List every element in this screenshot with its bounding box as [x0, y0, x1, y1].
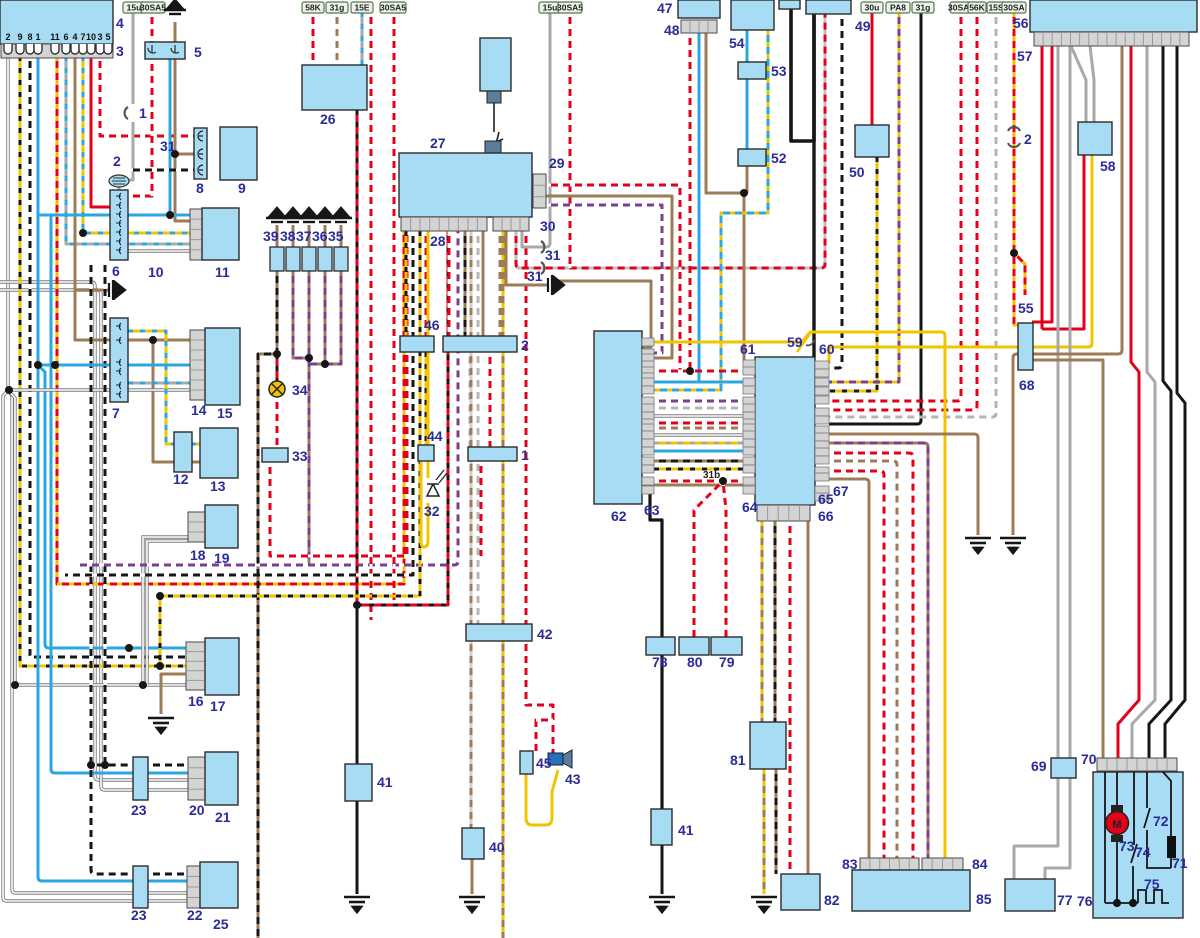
svg-text:1: 1 — [521, 447, 529, 463]
wire rw 30SA5b — [370, 12, 373, 620]
strip 66 — [757, 505, 810, 521]
wire blue 48 — [698, 33, 701, 382]
relay 58 — [1078, 122, 1112, 155]
junction d12 — [686, 367, 694, 375]
svg-text:26: 26 — [320, 111, 336, 127]
svg-text:30u: 30u — [865, 3, 880, 13]
svg-text:38: 38 — [280, 228, 296, 244]
wire row443 ylG — [642, 442, 744, 445]
wire yl 66 to 81 — [761, 521, 764, 722]
svg-text:31b: 31b — [703, 470, 720, 481]
wire 36 down — [309, 271, 325, 364]
wire red 57 fan — [1118, 46, 1139, 758]
svg-text:10: 10 — [148, 264, 164, 280]
svg-text:56: 56 — [1013, 15, 1029, 31]
wire gray-blue row383 — [128, 382, 190, 385]
wire brY long 45 — [502, 231, 505, 938]
wire brown gnd 37 — [308, 225, 311, 247]
resistor 41L — [345, 764, 372, 801]
relay 52 — [738, 149, 766, 166]
sensor 40 — [462, 828, 484, 859]
fuse label 15S — [987, 2, 1005, 13]
wire pin9 yellow-black — [20, 56, 186, 666]
svg-text:18: 18 — [190, 547, 206, 563]
ground 35col 325 — [314, 208, 336, 222]
wire pw row565 — [75, 231, 458, 565]
wire row461 brW — [829, 461, 897, 858]
wire rw 58K — [312, 12, 315, 65]
wire gray 69-77b — [1045, 778, 1070, 879]
wire black 62 to 78 — [650, 491, 662, 809]
wire brown 48 — [706, 33, 744, 364]
box5 hooks — [148, 45, 179, 53]
wire brown gnd 39 — [276, 225, 279, 247]
wire row434 brown — [829, 434, 978, 535]
svg-text:29: 29 — [549, 155, 565, 171]
wire white 685src — [8, 390, 186, 685]
svg-text:41: 41 — [377, 774, 393, 790]
svg-text:15u: 15u — [543, 3, 558, 13]
wire black 57 fan a — [1149, 46, 1171, 758]
wire gray 69-77a — [1014, 778, 1058, 879]
wire gray 58a — [1071, 46, 1086, 122]
wire rb from 26 — [356, 110, 359, 605]
fuse 23a — [133, 757, 148, 800]
wire rw box5 to 6 — [110, 59, 152, 196]
svg-text:52: 52 — [771, 150, 787, 166]
connector 6 — [110, 190, 128, 260]
svg-text:58: 58 — [1100, 158, 1116, 174]
unit 64 — [755, 357, 815, 505]
svg-text:14: 14 — [191, 402, 207, 418]
wire rw 33 down — [270, 231, 407, 556]
svg-text:42: 42 — [537, 626, 553, 642]
svg-text:72: 72 — [1153, 813, 1169, 829]
svg-text:82: 82 — [824, 892, 840, 908]
wire row401 pw — [642, 400, 744, 403]
svg-text:77: 77 — [1057, 892, 1073, 908]
svg-text:47: 47 — [657, 0, 673, 16]
wire brown 57 gnd — [1013, 46, 1122, 535]
svg-text:45: 45 — [536, 755, 552, 771]
svg-text:53: 53 — [771, 63, 787, 79]
svg-text:23: 23 — [131, 802, 147, 818]
ground right b — [1000, 538, 1026, 553]
wire brown branch12 — [153, 340, 175, 462]
svg-text:48: 48 — [664, 22, 680, 38]
svg-text:62: 62 — [611, 508, 627, 524]
control unit 11 — [202, 208, 239, 260]
svg-text:73: 73 — [1119, 838, 1135, 854]
wire rw from 30SA5 — [151, 12, 154, 42]
wire rw 30SA5 mid — [569, 12, 572, 268]
fuse 80 — [679, 637, 709, 655]
strip 14 — [190, 330, 205, 400]
svg-text:21: 21 — [215, 809, 231, 825]
svg-text:20: 20 — [189, 802, 205, 818]
svg-text:76: 76 — [1077, 893, 1093, 909]
unit top — [779, 0, 800, 9]
svg-text:17: 17 — [210, 698, 226, 714]
strip 18 — [188, 512, 205, 542]
svg-text:15E: 15E — [354, 3, 369, 13]
svg-text:3: 3 — [97, 32, 102, 42]
strip 61 pins — [743, 360, 755, 494]
box 46a — [400, 336, 434, 352]
svg-text:44: 44 — [427, 428, 443, 444]
wire pin1 blue — [38, 56, 133, 881]
wire black 78-41 — [661, 845, 664, 894]
relay 81 — [750, 722, 786, 769]
resistor 71 — [1163, 772, 1176, 868]
switch link — [487, 103, 503, 152]
wire bw 49 — [829, 14, 842, 368]
thermal switch 75 — [1114, 890, 1169, 906]
wire pin3 red-white — [100, 56, 194, 136]
junction d14 — [1010, 249, 1018, 257]
wire pw 29 row — [546, 205, 662, 353]
wire brown gnd 35 — [340, 225, 343, 247]
wire brown 68 fan — [1032, 360, 1103, 758]
svg-text:11: 11 — [215, 264, 230, 280]
wire rb row605 — [357, 231, 448, 605]
wire row382 blue — [642, 381, 744, 384]
wire k 66 to 81 — [774, 521, 777, 722]
svg-text:3: 3 — [116, 43, 124, 59]
wire yellow horn loop — [526, 770, 558, 825]
svg-text:68: 68 — [1019, 377, 1035, 393]
svg-text:5: 5 — [194, 44, 202, 60]
wire bw to 23a — [91, 260, 133, 765]
junction d10 — [353, 601, 361, 609]
bulb 34 — [269, 381, 285, 397]
svg-text:33: 33 — [292, 448, 308, 464]
wire brown 62top — [557, 281, 651, 347]
fuse label 30SA5 d — [948, 2, 974, 13]
wire rw 46b — [448, 231, 451, 336]
wire bw row575 — [65, 231, 413, 575]
wire 31b branch80 — [694, 481, 723, 637]
wire pin2 white — [6, 56, 9, 390]
wire gray 57 fan — [1132, 46, 1155, 758]
junction d16 — [321, 360, 329, 368]
motor 21 — [205, 752, 238, 805]
wire pin6 gray-blue — [66, 56, 190, 244]
svg-text:1: 1 — [35, 32, 40, 42]
wire row481 rw — [642, 480, 744, 483]
resistor 12 — [174, 432, 192, 472]
svg-text:41: 41 — [678, 822, 694, 838]
svg-text:2: 2 — [5, 32, 10, 42]
wire row453 rw — [829, 453, 913, 858]
wire pin11 red-yellow — [57, 56, 404, 584]
relay 50 — [855, 125, 889, 157]
wire brown box5 down — [175, 59, 190, 221]
wire gw 15S — [829, 12, 996, 417]
motor 73 — [1106, 772, 1129, 903]
svg-text:64: 64 — [742, 499, 758, 515]
connector box 8 — [194, 128, 207, 179]
junction d18 — [11, 681, 19, 689]
svg-text:85: 85 — [976, 891, 992, 907]
wire brown 12 to 13 — [191, 461, 202, 464]
wire rw 56K — [829, 12, 977, 410]
junction d20 — [101, 761, 109, 769]
wire brown gnd to box5 — [174, 22, 177, 42]
wire brown arrow31 — [506, 231, 548, 285]
wire rw 46a — [425, 231, 428, 336]
junction d21 — [156, 662, 164, 670]
svg-text:12: 12 — [173, 471, 189, 487]
svg-text:43: 43 — [565, 771, 581, 787]
wire row371 rw — [642, 370, 744, 373]
svg-text:74: 74 — [1135, 844, 1151, 860]
svg-text:67: 67 — [833, 483, 849, 499]
diode 32 — [427, 470, 447, 496]
wire py PA8 — [829, 12, 899, 382]
wire gray comp2 stub — [118, 186, 121, 192]
unit 62 — [594, 331, 642, 504]
wire bulb wire — [276, 354, 279, 381]
fuse label 31g a — [326, 2, 348, 13]
wire row479 brown — [829, 479, 869, 858]
wire red 57a — [1041, 46, 1044, 329]
svg-text:50: 50 — [849, 164, 865, 180]
wire brown 16 gnd — [161, 674, 186, 714]
wire brown gnd 38 — [292, 225, 295, 247]
svg-text:34: 34 — [292, 382, 308, 398]
wire brown gnd 36 — [324, 225, 327, 247]
wire rw to horn — [526, 231, 553, 752]
wire pin7 yellow-blue — [83, 56, 190, 233]
strip 57 — [1034, 32, 1189, 46]
strip 48 — [681, 20, 717, 33]
wire rg row268 — [516, 14, 825, 268]
wire kbr 46b — [464, 231, 467, 336]
pin numbers box 4 — [5, 32, 110, 42]
svg-text:83: 83 — [842, 856, 858, 872]
wire ylB strip7 to 12 — [128, 331, 175, 444]
wire 38 down — [293, 271, 309, 358]
wire row484 brown — [642, 484, 744, 487]
switch 72 — [1144, 772, 1171, 868]
fuse label 15u b — [539, 2, 561, 13]
motor 13 — [200, 428, 238, 478]
wire black to 41 — [356, 605, 359, 894]
svg-text:46: 46 — [424, 317, 440, 333]
wire rw 1 down — [480, 461, 483, 556]
wire rw 30SA5 r — [829, 12, 961, 401]
fuse label 30SA5 b — [380, 2, 406, 13]
strip 16 — [186, 642, 205, 690]
wire pin4 brown — [75, 56, 190, 340]
fuse label 30SA — [1002, 2, 1026, 13]
wire blG 15E — [361, 12, 364, 65]
svg-text:19: 19 — [214, 550, 230, 566]
svg-text:56K: 56K — [969, 3, 985, 13]
wire yb 46a-44 — [425, 352, 428, 445]
svg-text:31g: 31g — [916, 3, 931, 13]
svg-text:22: 22 — [187, 907, 203, 923]
wire bw row 20 — [148, 764, 188, 767]
wire brown to gnd arrow — [75, 289, 109, 292]
wire 31b branch79 — [723, 481, 726, 637]
wire ylG 81 gnd — [763, 769, 766, 894]
fan internal left wire — [1105, 772, 1138, 903]
wire row428 brW — [642, 427, 744, 430]
svg-text:37: 37 — [296, 228, 312, 244]
wire pin8 black-white — [30, 56, 186, 657]
unit 47 — [678, 0, 720, 18]
wire rw 30SA5c — [393, 12, 396, 605]
wire pin10 red — [91, 56, 110, 207]
svg-text:2: 2 — [521, 337, 529, 353]
symbol 59 break — [797, 331, 814, 352]
wire br 66 to 82 — [807, 521, 810, 874]
switch 74 — [1131, 772, 1137, 903]
svg-text:8: 8 — [196, 180, 204, 196]
wire blue box5 down — [169, 59, 172, 215]
unit 85 — [852, 870, 970, 911]
svg-text:49: 49 — [855, 18, 871, 34]
junction d6 — [149, 336, 157, 344]
wire blue row365 — [38, 364, 190, 367]
junction d7 — [139, 681, 147, 689]
svg-text:16: 16 — [188, 693, 204, 709]
wire yellow diode — [421, 231, 428, 547]
symbol 2 right — [1008, 127, 1020, 147]
wire rw 2 to 1 — [489, 352, 492, 447]
strip 28 — [401, 217, 487, 231]
svg-text:31: 31 — [527, 268, 543, 284]
box 1m — [468, 447, 517, 461]
wire black 31g — [829, 12, 921, 424]
wire br 29 row — [546, 196, 672, 358]
strip 20 — [188, 757, 205, 800]
svg-text:15: 15 — [217, 405, 233, 421]
unit 82 — [781, 874, 820, 910]
wire blue 54 — [746, 30, 749, 149]
svg-text:7: 7 — [80, 32, 85, 42]
fuse label 30u — [861, 2, 883, 13]
wire rw 48 — [689, 33, 692, 371]
wire brown 40 gnd — [471, 859, 474, 894]
fuse 23b — [133, 866, 148, 908]
svg-text:84: 84 — [972, 856, 988, 872]
fuse 78 — [646, 637, 675, 655]
junction d8 — [125, 644, 133, 652]
svg-text:8: 8 — [27, 32, 32, 42]
plug 2 — [485, 141, 501, 153]
wire blue row21b — [148, 772, 188, 775]
svg-text:57: 57 — [1017, 48, 1033, 64]
svg-text:71: 71 — [1172, 855, 1188, 871]
diode 68 — [1018, 323, 1033, 370]
box8 pins — [198, 131, 203, 175]
box 46b — [443, 336, 517, 352]
wire black 57 fan b — [1165, 46, 1185, 758]
svg-text:9: 9 — [17, 32, 22, 42]
junction d2 — [79, 229, 87, 237]
svg-text:6: 6 — [63, 32, 68, 42]
svg-text:30SA: 30SA — [1003, 3, 1024, 13]
strip 60-65-67 pins — [815, 361, 829, 501]
switch 19 — [205, 505, 238, 548]
horn 43 — [548, 750, 572, 768]
connector 7 — [110, 318, 128, 402]
connector break 31b — [541, 262, 544, 274]
svg-text:30SA5: 30SA5 — [557, 3, 583, 13]
svg-text:63: 63 — [644, 502, 660, 518]
fuse label PA8 — [886, 2, 910, 13]
wire purple down — [308, 271, 311, 565]
wire yb 46a — [405, 231, 408, 336]
svg-text:54: 54 — [729, 35, 745, 51]
fuse label 58K — [302, 2, 324, 13]
wire gw into 42 — [477, 231, 480, 624]
svg-text:11: 11 — [50, 32, 60, 42]
ground 41R — [649, 897, 675, 912]
wire row451 blue — [642, 450, 744, 453]
ground 40 — [459, 897, 485, 912]
fuse label 30SA5 c — [557, 2, 583, 13]
svg-text:28: 28 — [430, 233, 446, 249]
svg-text:25: 25 — [213, 916, 229, 932]
wire blue branch16 — [38, 365, 186, 648]
svg-text:2: 2 — [1024, 131, 1032, 147]
connector strip 3 — [1, 44, 113, 58]
instrument 15 — [205, 328, 240, 405]
wire white 21a — [0, 282, 188, 780]
wire row408 gw — [642, 407, 744, 410]
wire white row390 — [8, 388, 190, 391]
junction d3 — [34, 361, 42, 369]
unit 17 — [205, 638, 239, 695]
svg-text:23: 23 — [131, 907, 147, 923]
svg-text:4: 4 — [72, 32, 77, 42]
svg-text:36: 36 — [312, 228, 328, 244]
svg-text:27: 27 — [430, 135, 446, 151]
svg-text:30: 30 — [540, 218, 556, 234]
relay 42 — [466, 624, 532, 641]
svg-text:10: 10 — [86, 32, 96, 42]
fuse 79 — [711, 637, 742, 655]
junction d13 — [740, 189, 748, 197]
unit 49 — [806, 0, 851, 14]
strip 83 — [860, 858, 919, 870]
wire gray from 15u — [128, 12, 133, 180]
wire row435 white — [642, 433, 744, 436]
svg-text:65: 65 — [818, 491, 834, 507]
fan unit 76 — [1093, 772, 1183, 918]
svg-text:5: 5 — [105, 32, 110, 42]
svg-text:31: 31 — [160, 138, 176, 154]
ground 81 — [751, 897, 777, 912]
junction d23 — [166, 211, 174, 219]
svg-text:39: 39 — [263, 228, 279, 244]
wire rw 29 row — [546, 185, 680, 371]
wire red 58 loop — [1042, 155, 1084, 329]
wire gray 57 69a — [1057, 46, 1060, 758]
ground 35col 277 — [266, 208, 288, 222]
wire white 21b — [0, 290, 188, 790]
svg-text:58K: 58K — [305, 3, 321, 13]
wire yellow 59 — [644, 332, 945, 858]
strip 22 — [187, 866, 200, 908]
unit 54 — [731, 0, 774, 30]
wire row443 brP — [829, 443, 928, 858]
svg-text:80: 80 — [687, 654, 703, 670]
